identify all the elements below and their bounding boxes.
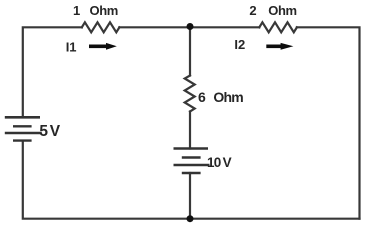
battery B2 10 V bbox=[174, 149, 210, 174]
current arrow I1 bbox=[89, 43, 117, 50]
wire bottom bbox=[23, 141, 360, 219]
svg-text:Ohm: Ohm bbox=[268, 3, 296, 18]
node B junction dot bbox=[187, 215, 194, 222]
battery B1 5 V bbox=[5, 117, 42, 140]
wire middle branch upper (node A to resistor R3) bbox=[189, 27, 191, 76]
current arrow I2 bbox=[266, 43, 293, 50]
svg-text:2: 2 bbox=[249, 3, 256, 18]
resistor R2 2 Ohm bbox=[259, 22, 297, 32]
wire top-right (node A to resistor R2) bbox=[190, 26, 259, 28]
svg-text:10: 10 bbox=[207, 155, 221, 170]
wire middle branch (R3 to battery B2) bbox=[189, 112, 191, 149]
svg-text:6: 6 bbox=[198, 89, 206, 105]
wire middle branch lower (battery B2 to node B) bbox=[189, 173, 191, 219]
svg-text:Ohm: Ohm bbox=[90, 3, 118, 18]
svg-text:V: V bbox=[223, 155, 232, 170]
svg-text:I1: I1 bbox=[66, 40, 77, 55]
svg-text:5: 5 bbox=[39, 123, 48, 140]
wire top-left (battery B1 positive to resistor R1) bbox=[23, 27, 82, 117]
wire top-right corner to right side bbox=[297, 27, 360, 218]
svg-text:Ohm: Ohm bbox=[213, 89, 243, 105]
svg-text:I2: I2 bbox=[234, 37, 245, 52]
node A junction dot bbox=[187, 23, 194, 30]
wire top-middle (R1 to node A) bbox=[119, 26, 190, 28]
svg-text:V: V bbox=[50, 123, 61, 140]
svg-text:1: 1 bbox=[73, 3, 80, 18]
resistor R3 6 Ohm bbox=[185, 76, 195, 112]
resistor R1 1 Ohm bbox=[82, 22, 120, 32]
